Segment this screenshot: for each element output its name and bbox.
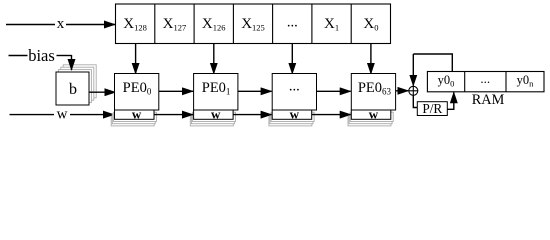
wire PEdots to PE063	[317, 90, 351, 92]
shift register box X	[116, 4, 391, 44]
wire w input	[10, 114, 115, 116]
PE U4 PE0_63	[348, 74, 396, 126]
wire PR to RAM	[447, 92, 454, 109]
svg-text:w: w	[211, 107, 221, 122]
wire RAM feedback to adder	[413, 54, 452, 86]
PE U1 PE0_0	[111, 74, 159, 126]
wire X126 to PE01	[213, 44, 215, 74]
svg-text:P/R: P/R	[422, 101, 442, 116]
wire PE063 to adder	[396, 90, 409, 92]
RAM U6	[427, 72, 544, 92]
wire PE00 to PE01	[159, 90, 193, 92]
wire X128 to PE00	[135, 44, 137, 74]
wire X0 to PE063	[370, 44, 372, 74]
wire adder to PR	[413, 95, 417, 107]
svg-text:w: w	[369, 107, 379, 122]
svg-text:w: w	[290, 107, 300, 122]
svg-text:RAM: RAM	[472, 92, 505, 108]
wire Xdots to PEdots	[291, 44, 293, 74]
svg-text:...: ...	[480, 71, 490, 86]
svg-text:w: w	[132, 107, 142, 122]
wire b to PE00	[90, 91, 116, 93]
PE U2 PE0_1	[190, 74, 238, 126]
wire bias	[9, 55, 72, 70]
adder U5	[409, 86, 418, 95]
svg-text:x: x	[57, 16, 65, 32]
wire w PE00 to PE01	[154, 114, 193, 116]
svg-text:...: ...	[287, 15, 298, 31]
wire w PE01 to PEdots	[233, 114, 272, 116]
PE U3 PE dots	[269, 74, 317, 126]
svg-text:b: b	[69, 81, 77, 98]
svg-text:bias: bias	[28, 46, 55, 65]
register stack B	[56, 65, 96, 105]
wire PE01 to PEdots	[238, 90, 272, 92]
svg-text:...: ...	[289, 79, 300, 95]
register PR	[417, 101, 447, 116]
wire w PEdots to PE063	[312, 114, 351, 116]
wire x input	[6, 24, 115, 26]
svg-text:w: w	[57, 106, 68, 122]
